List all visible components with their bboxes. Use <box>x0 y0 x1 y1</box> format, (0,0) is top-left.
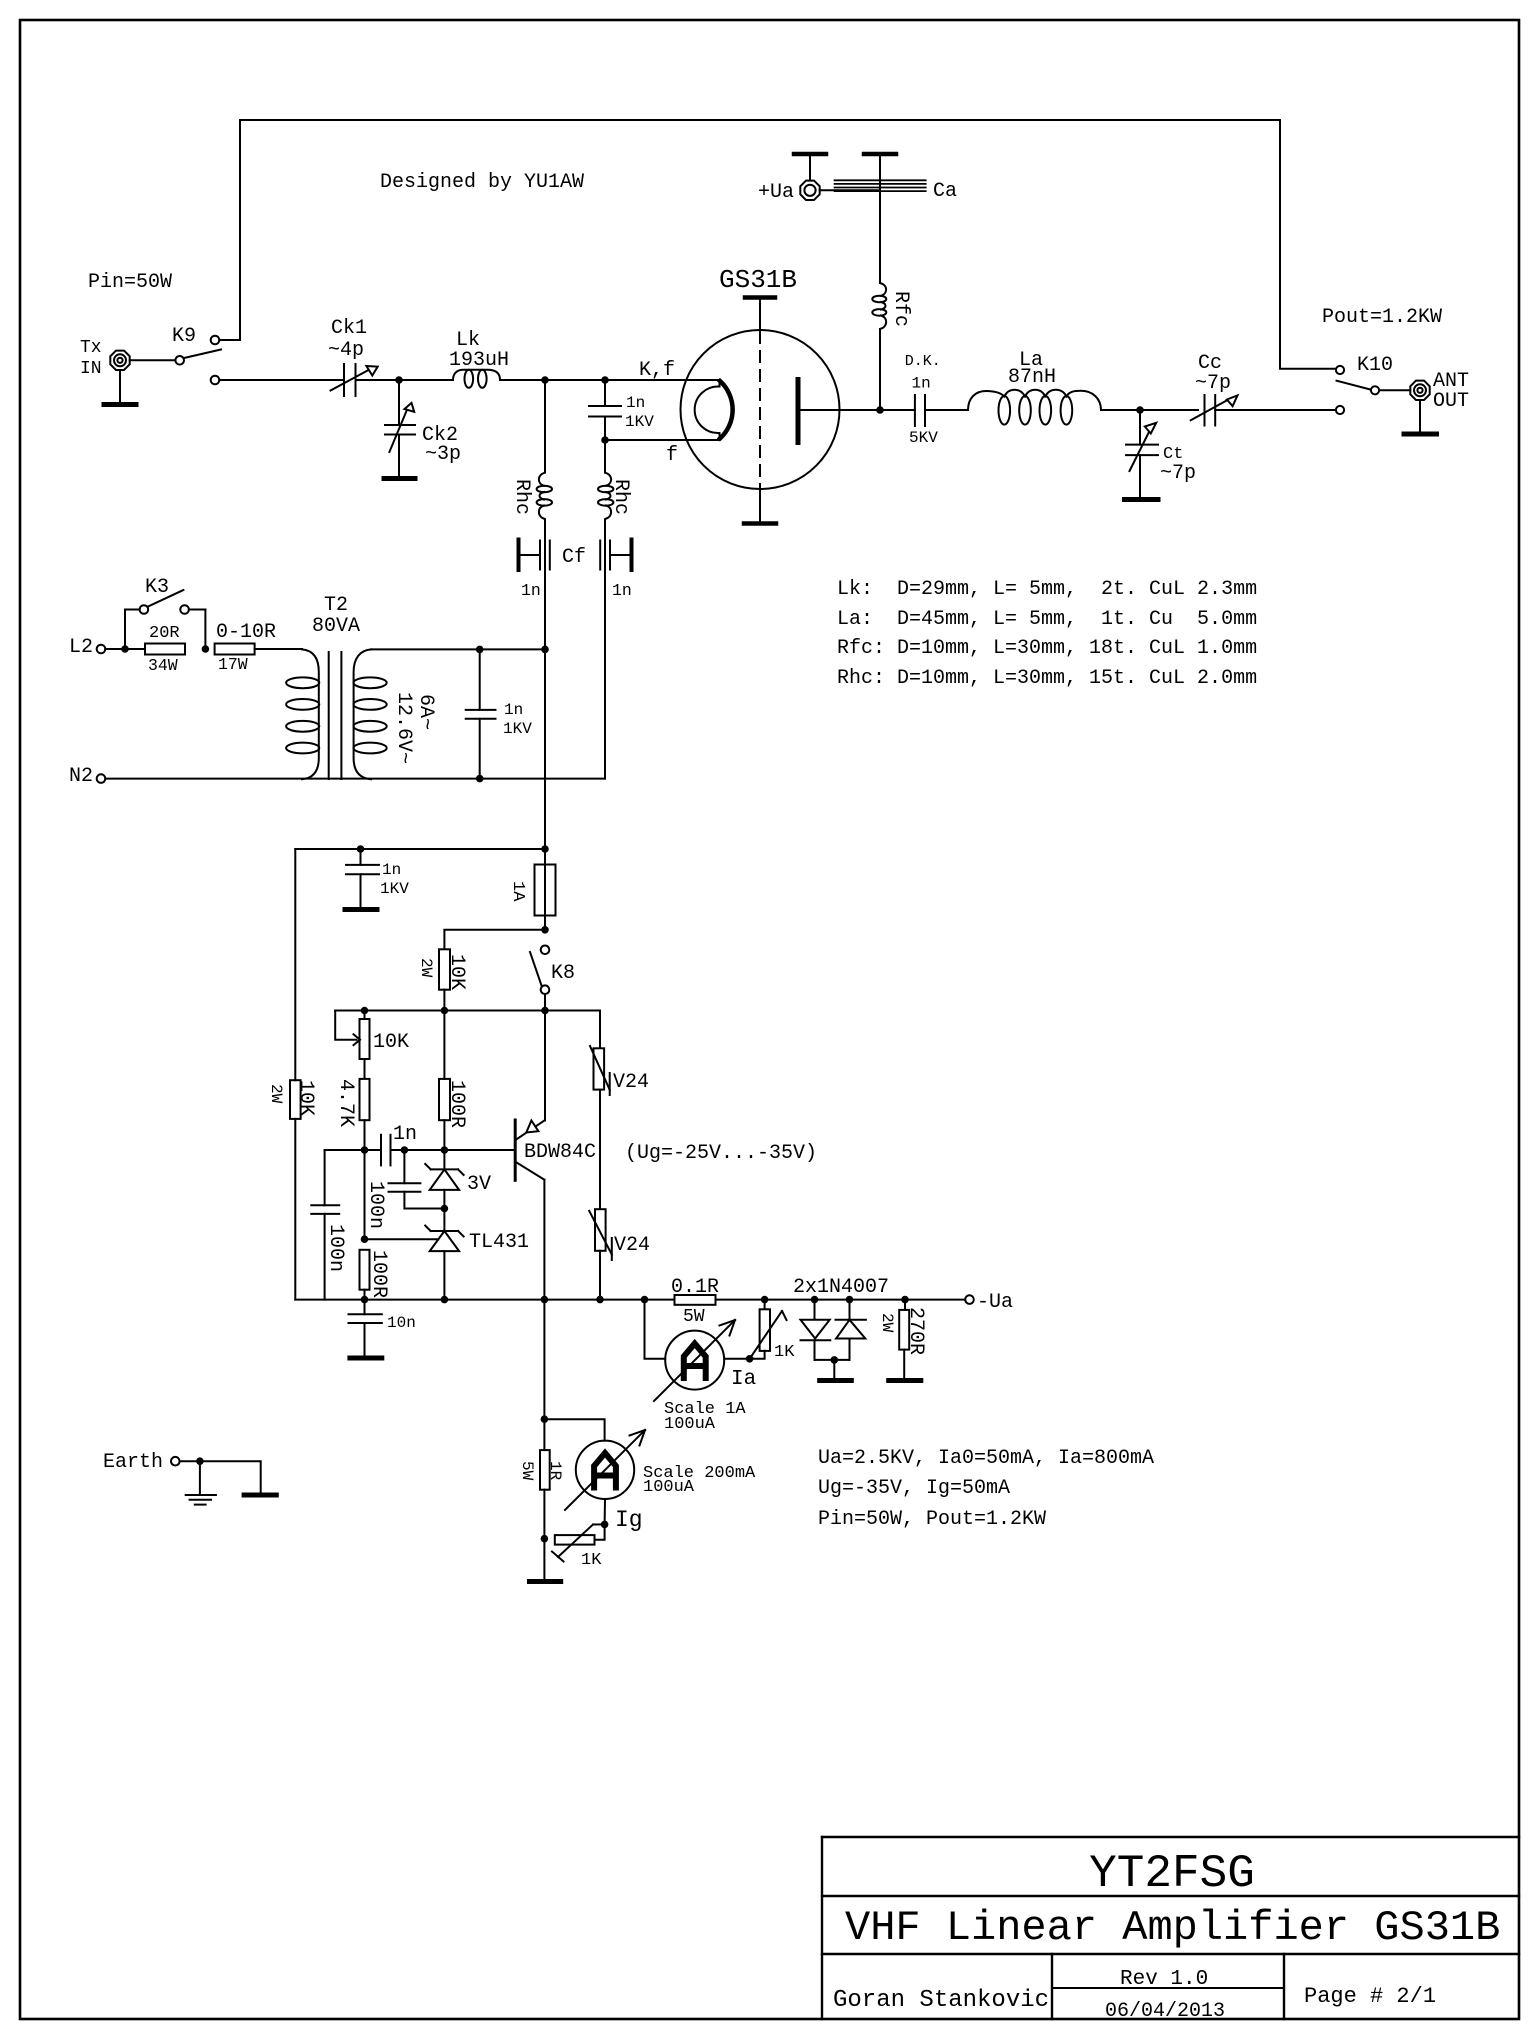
chassis bar above Ca <box>864 152 896 157</box>
transistor Q1 BDW84C <box>515 1120 544 1180</box>
connector +Ua <box>800 181 819 200</box>
svg-text:Ca: Ca <box>933 180 957 203</box>
svg-text:Rfc: Rfc <box>889 291 912 327</box>
svg-text:Pout=1.2KW: Pout=1.2KW <box>1322 306 1442 329</box>
ground below bias cap <box>345 907 377 912</box>
svg-text:2W: 2W <box>267 1084 285 1104</box>
svg-text:1n: 1n <box>393 1123 417 1146</box>
zener diode 3V <box>425 1150 463 1209</box>
svg-text:100R: 100R <box>445 1080 468 1128</box>
svg-text:Ck1: Ck1 <box>331 317 367 340</box>
wire Rfc to anode node <box>879 329 881 410</box>
svg-text:1n: 1n <box>504 701 523 719</box>
wire 10K 2W to bias rail <box>443 990 445 1011</box>
svg-text:(Ug=-25V...-35V): (Ug=-25V...-35V) <box>625 1142 817 1165</box>
wire bias mid rail <box>335 1010 600 1012</box>
ground below 270R <box>889 1378 921 1383</box>
resistor 100R (mid) <box>439 1079 450 1120</box>
varistor V24 (lower) <box>589 1209 612 1299</box>
node anode junction <box>876 406 884 414</box>
wire Tx IN to K9 <box>130 359 176 361</box>
inductor Lk 193uH <box>453 370 500 388</box>
switch K8 <box>530 946 549 995</box>
wire K10 to ANT OUT <box>1379 389 1410 391</box>
capacitor Cc ~7p variable <box>1191 395 1238 426</box>
svg-text:OUT: OUT <box>1433 390 1469 413</box>
svg-text:1KV: 1KV <box>380 880 409 898</box>
capacitor 1n 1KV (bias) <box>346 849 379 907</box>
svg-text:Earth: Earth <box>103 1451 163 1474</box>
svg-text:~3p: ~3p <box>425 443 461 466</box>
svg-text:TL431: TL431 <box>469 1231 529 1254</box>
svg-text:6A~: 6A~ <box>414 694 437 730</box>
svg-text:Pin=50W, Pout=1.2KW: Pin=50W, Pout=1.2KW <box>818 1508 1046 1531</box>
resistor 20R 34W <box>145 644 185 655</box>
wire Ck1 to node A <box>356 379 454 381</box>
ammeter Ia <box>645 1300 750 1401</box>
svg-text:4.7K: 4.7K <box>334 1079 357 1127</box>
wire right Cf line down to N2 wire <box>604 541 606 779</box>
transformer T2 80VA <box>286 649 387 779</box>
svg-text:K3: K3 <box>145 576 169 599</box>
svg-text:5W: 5W <box>518 1461 536 1481</box>
svg-text:K9: K9 <box>172 325 196 348</box>
switch K3 <box>125 590 205 649</box>
wire Tx IN to ground <box>119 370 121 402</box>
wire 4.7K to 1n node <box>364 1120 366 1239</box>
svg-text:Lk: D=29mm, L= 5mm, 2t. CuL: Lk: D=29mm, L= 5mm, 2t. CuL 2.3mm <box>837 578 1257 601</box>
svg-text:-Ua: -Ua <box>977 1291 1013 1314</box>
ground below Ck2 <box>384 476 415 481</box>
terminal Earth <box>171 1457 180 1466</box>
terminal L2 <box>97 645 106 654</box>
svg-text:~7p: ~7p <box>1195 372 1231 395</box>
inductor Rfc <box>872 283 886 329</box>
ground below diodes <box>820 1378 852 1383</box>
node B junction <box>1136 406 1144 414</box>
svg-text:GS31B: GS31B <box>719 265 797 295</box>
svg-text:100uA: 100uA <box>643 1478 695 1497</box>
resistor 10K 2W (upper) <box>439 949 450 989</box>
wire T2 secondary top to node <box>371 648 545 650</box>
potentiometer 1K (Ia) <box>750 1300 787 1359</box>
svg-text:2W: 2W <box>417 958 435 978</box>
svg-text:1n: 1n <box>521 581 541 600</box>
resistor 1R 5W <box>540 1419 550 1539</box>
svg-text:17W: 17W <box>218 655 248 674</box>
svg-text:~7p: ~7p <box>1160 462 1196 485</box>
wire La to node B <box>1101 409 1198 411</box>
svg-text:Rev 1.0: Rev 1.0 <box>1120 1968 1208 1991</box>
svg-text:~4p: ~4p <box>328 339 364 362</box>
svg-text:1n: 1n <box>612 581 632 600</box>
potentiometer 10K <box>335 1011 369 1079</box>
svg-text:VHF Linear Amplifier GS31B: VHF Linear Amplifier GS31B <box>845 1904 1500 1952</box>
svg-text:3V: 3V <box>467 1173 491 1196</box>
wire collector down <box>543 1180 545 1420</box>
svg-text:1n: 1n <box>626 394 645 412</box>
wire N2 line to right Cf line <box>105 778 605 780</box>
capacitor Cf right feedthrough 1n <box>600 540 631 571</box>
svg-text:1A: 1A <box>508 881 527 902</box>
capacitor 1n 1KV (filament) <box>466 649 496 778</box>
capacitor Ck2 ~3p variable <box>385 380 415 477</box>
svg-text:5W: 5W <box>683 1307 705 1327</box>
ground below ANT OUT <box>1404 432 1437 437</box>
svg-text:10n: 10n <box>387 1314 416 1332</box>
svg-text:BDW84C: BDW84C <box>524 1141 596 1164</box>
connector J1 Tx IN <box>110 351 129 370</box>
svg-text:IN: IN <box>80 359 102 379</box>
wire left Cf line down to transformer node <box>544 541 546 849</box>
svg-text:Ia: Ia <box>731 1368 756 1391</box>
svg-text:1K: 1K <box>774 1343 795 1362</box>
wire K8 to bias rail <box>544 994 546 1121</box>
resistor 4.7K <box>360 1079 370 1120</box>
svg-text:Pin=50W: Pin=50W <box>88 271 172 294</box>
inductor Rhc left <box>537 380 552 541</box>
wire left rail <box>294 849 296 1080</box>
resistor 0.1R 5W <box>675 1295 716 1305</box>
title block frame <box>822 1837 1519 2019</box>
diode D2 1N4007 <box>836 1300 866 1360</box>
svg-text:V24: V24 <box>614 1234 650 1257</box>
svg-text:1n: 1n <box>912 375 931 393</box>
svg-text:100uA: 100uA <box>664 1415 716 1434</box>
svg-text:V24: V24 <box>613 1071 649 1094</box>
svg-text:K10: K10 <box>1357 354 1393 377</box>
svg-text:100n: 100n <box>324 1224 347 1272</box>
svg-text:La: D=45mm, L= 5mm, 1t. Cu: La: D=45mm, L= 5mm, 1t. Cu 5.0mm <box>837 608 1257 631</box>
wire diode common to ground <box>815 1359 850 1361</box>
potentiometer 1K (Ig) <box>552 1524 605 1561</box>
capacitor Ck1 ~4p variable <box>331 364 378 396</box>
svg-text:Designed by YU1AW: Designed by YU1AW <box>380 171 584 194</box>
svg-text:10K: 10K <box>373 1031 409 1054</box>
ammeter Ig <box>565 1430 645 1524</box>
resistor 270R 2W <box>899 1300 909 1378</box>
inductor La 87nH <box>968 390 1101 425</box>
terminal -Ua <box>965 1295 974 1304</box>
svg-text:Goran Stankovic: Goran Stankovic <box>833 1987 1049 2014</box>
svg-text:1n: 1n <box>382 861 401 879</box>
svg-text:06/04/2013: 06/04/2013 <box>1105 2000 1225 2023</box>
svg-text:270R: 270R <box>904 1307 927 1355</box>
wire Earth <box>180 1461 261 1492</box>
wire L2 to resistors <box>105 648 145 650</box>
earth ground symbol <box>186 1495 216 1505</box>
svg-text:87nH: 87nH <box>1008 366 1056 389</box>
diode D1 1N4007 <box>801 1300 831 1360</box>
shunt regulator TL431 <box>365 1209 464 1300</box>
tube GS31B <box>681 298 881 524</box>
svg-text:100n: 100n <box>364 1181 387 1229</box>
svg-text:193uH: 193uH <box>449 349 509 372</box>
svg-text:Cf: Cf <box>562 546 586 569</box>
wire Cc to K10 <box>1215 409 1336 411</box>
svg-text:Ug=-35V, Ig=50mA: Ug=-35V, Ig=50mA <box>818 1477 1010 1500</box>
capacitor 100n (left) <box>311 1150 339 1300</box>
wire D.K. to La <box>925 409 968 411</box>
wire f to tube <box>605 439 720 441</box>
svg-text:K8: K8 <box>551 962 575 985</box>
svg-text:1R: 1R <box>546 1461 564 1481</box>
node f junction <box>601 436 609 444</box>
svg-text:0-10R: 0-10R <box>216 621 276 644</box>
wire chassis to +Ua connector <box>809 156 811 180</box>
switch K10 <box>1336 366 1379 414</box>
wire fuse node to 10K 2W <box>444 930 545 950</box>
ground below Tx IN <box>104 402 136 407</box>
ground below 10n <box>350 1356 382 1361</box>
svg-text:Rhc: Rhc <box>609 479 632 515</box>
svg-text:Ua=2.5KV, Ia0=50mA, Ia=800mA: Ua=2.5KV, Ia0=50mA, Ia=800mA <box>818 1447 1154 1470</box>
wire 1R to ground <box>543 1539 545 1579</box>
svg-text:1KV: 1KV <box>503 720 532 738</box>
wire K9 upper contact to bypass <box>219 339 240 341</box>
svg-text:Page # 2/1: Page # 2/1 <box>1304 1984 1436 2009</box>
svg-text:T2: T2 <box>324 594 348 617</box>
wire base rail y1150 <box>325 1149 381 1151</box>
svg-text:2x1N4007: 2x1N4007 <box>793 1276 889 1299</box>
capacitor 10n <box>349 1300 382 1356</box>
chassis bar above +Ua <box>794 152 826 157</box>
svg-text:+Ua: +Ua <box>758 181 794 204</box>
svg-text:12.6V~: 12.6V~ <box>392 692 415 764</box>
svg-text:100R: 100R <box>367 1250 390 1298</box>
node grid cap junction <box>601 376 609 384</box>
capacitor D.K. 1n 5KV <box>880 395 925 426</box>
capacitor 100n (mid) <box>389 1150 445 1209</box>
svg-text:f: f <box>666 444 678 467</box>
varistor V24 (upper) <box>590 1011 610 1210</box>
svg-text:1K: 1K <box>581 1551 602 1570</box>
wire 0-10R to T2 <box>255 648 302 650</box>
svg-text:Ig: Ig <box>615 1507 643 1533</box>
wire Lk to tube cathode node <box>500 379 720 381</box>
fuse 1A <box>535 849 556 930</box>
capacitor Ca feedthrough <box>835 180 926 191</box>
wire Ca down to Rfc <box>879 156 881 283</box>
ground below 1R <box>530 1579 561 1584</box>
svg-text:D.K.: D.K. <box>905 353 941 370</box>
capacitor Ct ~7p variable <box>1126 410 1158 497</box>
inductor Rhc right <box>598 440 613 541</box>
node K,f junction <box>541 376 549 384</box>
capacitor 1n 1KV (cathode to f) <box>589 380 621 440</box>
svg-text:2W: 2W <box>878 1313 896 1333</box>
resistor 0-10R 17W <box>215 644 255 655</box>
svg-text:Tx: Tx <box>80 338 102 358</box>
node A junction <box>395 376 403 384</box>
wire bias bottom rail <box>295 1299 675 1301</box>
svg-text:80VA: 80VA <box>312 615 360 638</box>
svg-text:10K: 10K <box>445 954 468 990</box>
svg-text:Rfc: D=10mm, L=30mm, 18t. CuL: Rfc: D=10mm, L=30mm, 18t. CuL 1.0mm <box>837 637 1257 660</box>
capacitor Cf left feedthrough 1n <box>519 540 550 571</box>
svg-text:N2: N2 <box>69 765 93 788</box>
wire bias top rail <box>295 848 545 850</box>
connector ANT OUT <box>1410 381 1429 400</box>
svg-text:Rhc: Rhc <box>510 479 533 515</box>
wire K9 lower contact to Ck1 <box>219 379 344 381</box>
wire top bypass from K9 to K10 <box>240 120 1336 369</box>
wire ANT OUT to ground <box>1419 400 1421 431</box>
svg-text:1KV: 1KV <box>625 413 654 431</box>
terminal N2 <box>97 774 106 783</box>
resistor 10K 2W (left) <box>290 1080 301 1119</box>
svg-text:K,f: K,f <box>639 359 675 382</box>
svg-text:L2: L2 <box>69 636 93 659</box>
svg-text:5KV: 5KV <box>909 429 938 447</box>
svg-text:20R: 20R <box>149 624 180 643</box>
switch K9 <box>175 336 221 385</box>
svg-text:Rhc: D=10mm, L=30mm, 15t. CuL: Rhc: D=10mm, L=30mm, 15t. CuL 2.0mm <box>837 667 1257 690</box>
wire +Ua to Ca <box>820 189 880 191</box>
ground below Ct <box>1125 497 1159 502</box>
resistor 100R (lower) <box>360 1250 370 1290</box>
wire 100R mid leads <box>443 1011 445 1079</box>
svg-text:10K: 10K <box>294 1080 317 1116</box>
svg-text:YT2FSG: YT2FSG <box>1089 1848 1255 1900</box>
wire collector node to Ig <box>541 1415 549 1423</box>
capacitor 1n (series, base) <box>381 1135 391 1166</box>
chassis ground bar <box>244 1493 276 1498</box>
svg-text:34W: 34W <box>148 656 178 675</box>
svg-text:0.1R: 0.1R <box>671 1276 719 1299</box>
